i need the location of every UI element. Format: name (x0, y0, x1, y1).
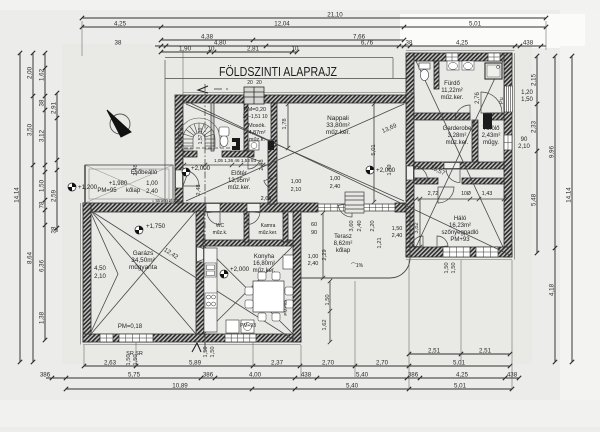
svg-text:2,10: 2,10 (291, 187, 302, 193)
label slope (351, 263, 364, 269)
svg-text:6,36: 6,36 (39, 259, 46, 272)
section line dash-dot (204, 84, 206, 352)
svg-text:10–1,51 10: 10–1,51 10 (242, 114, 267, 120)
svg-text:10: 10 (292, 46, 299, 53)
spiral staircase winder (178, 118, 220, 149)
label kolap (126, 188, 141, 194)
dimension row total 21,10 (80, 16, 548, 20)
black mark bath (483, 113, 492, 129)
svg-text:10Ø: 10Ø (461, 191, 471, 197)
window halo window2 (476, 247, 498, 257)
svg-text:33,80m²: 33,80m² (326, 122, 349, 129)
eaves line right wing (514, 53, 516, 260)
dimension row row2 (82, 364, 512, 368)
label 2,65 (261, 196, 272, 202)
svg-text:1,50: 1,50 (521, 97, 533, 103)
svg-text:5,75: 5,75 (128, 372, 141, 379)
door wing arc (414, 166, 428, 180)
stove 4 rings (205, 293, 217, 308)
svg-text:5,01: 5,01 (454, 383, 467, 390)
svg-text:Kamra: Kamra (261, 223, 276, 229)
svg-text:1,00: 1,00 (308, 254, 319, 260)
label chimney 20b (256, 80, 262, 86)
svg-text:2,48: 2,48 (133, 164, 139, 175)
wall terasz top right piece (395, 203, 414, 212)
dimension column right 14,14 (570, 54, 574, 364)
wall furdo bottom right part (486, 113, 504, 120)
svg-text:Előtér: Előtér (231, 171, 247, 177)
svg-text:PM=0,18: PM=0,18 (118, 324, 143, 330)
door band arc b (247, 212, 260, 225)
diagonal long 25,57 (184, 100, 510, 255)
svg-text:1,50: 1,50 (444, 262, 450, 273)
label Esobeallo (131, 170, 158, 176)
label pm93h (240, 323, 256, 329)
svg-text:1,38: 1,38 (39, 311, 46, 324)
svg-text:2,40: 2,40 (357, 220, 363, 231)
label d100 (308, 254, 319, 260)
label WC (213, 223, 228, 236)
interior dim line halo horizontal (414, 197, 506, 201)
svg-text:műz.ker.: műz.ker. (228, 185, 251, 191)
svg-text:1,49: 1,49 (387, 164, 393, 175)
window halo window (443, 247, 470, 257)
wall nappali top (183, 95, 414, 103)
label +1980 (109, 181, 128, 187)
svg-text:Mosók.: Mosók. (248, 123, 266, 129)
wall halo top right (462, 178, 504, 184)
wall garage-kitchen divider (196, 211, 204, 334)
svg-text:20: 20 (256, 80, 262, 86)
door garderobe arc (446, 169, 460, 183)
label d90 (311, 230, 317, 236)
interior dim line halo vertical (418, 197, 422, 249)
svg-text:4,25: 4,25 (456, 40, 469, 47)
door x (485, 112, 487, 114)
svg-text:1,43: 1,43 (482, 191, 493, 197)
wall garage+kitchen bottom (83, 334, 301, 342)
label dim 2,10 (518, 144, 530, 150)
svg-text:szőnyegpadló: szőnyegpadló (441, 230, 479, 236)
svg-text:PM+93: PM+93 (240, 323, 256, 329)
svg-text:1,62: 1,62 (322, 319, 328, 330)
label e 1,00 (291, 179, 302, 185)
label Konyha (253, 254, 276, 274)
washbasins (447, 61, 459, 70)
window bath window right (504, 88, 512, 109)
eaves line above nappali top wall (183, 92, 414, 94)
interior dim line eloter horizontal (182, 163, 272, 167)
svg-text:4,87m²: 4,87m² (248, 130, 265, 136)
door opening entrance in left wall (176, 170, 183, 188)
svg-text:4,25: 4,25 (114, 21, 127, 28)
dimension row row4 (64, 387, 514, 391)
diagonal nappali X b (186, 104, 404, 201)
svg-text:9,96: 9,96 (549, 145, 556, 158)
svg-text:5,01: 5,01 (453, 360, 466, 367)
svg-text:2,81: 2,81 (247, 46, 260, 53)
svg-text:38: 38 (406, 40, 413, 47)
label d60a (311, 222, 317, 228)
svg-text:11,22m²: 11,22m² (441, 88, 463, 94)
svg-text:8,64: 8,64 (27, 251, 34, 264)
dimension row 4,38/7,66 (159, 38, 406, 42)
svg-text:2,43m²: 2,43m² (482, 133, 501, 139)
porch esobeallo outline (85, 165, 173, 203)
diagonal garage X (91, 211, 196, 334)
svg-text:3,82: 3,82 (414, 222, 420, 233)
dim line terasz left (321, 211, 325, 280)
wall halo bottom (406, 247, 512, 257)
label chimney 20a (247, 80, 253, 86)
svg-text:12,04: 12,04 (274, 21, 290, 28)
door opening nappali to right wing (407, 166, 414, 180)
label Garderobe (443, 126, 472, 146)
svg-text:10,89: 10,89 (172, 383, 188, 390)
svg-text:5,89: 5,89 (189, 360, 202, 367)
label strang (152, 198, 181, 203)
door halo terasz door b (437, 236, 448, 247)
svg-text:20: 20 (247, 80, 253, 86)
label porch 1,00 (146, 181, 158, 187)
svg-text:+2,000: +2,000 (191, 165, 211, 172)
svg-text:PM=1,2: PM=1,2 (178, 127, 184, 145)
svg-text:PM+93: PM+93 (283, 300, 289, 316)
svg-text:műgyanta: műgyanta (129, 264, 158, 271)
window terasz glazed band (318, 204, 395, 211)
svg-text:műz.ker.: műz.ker. (326, 129, 350, 136)
dim line 1,78 nappali left (286, 102, 290, 150)
diagonal right wing X (416, 61, 503, 247)
svg-text:90: 90 (311, 230, 317, 236)
svg-text:4,25: 4,25 (456, 372, 469, 379)
svg-text:Fürdő: Fürdő (444, 81, 460, 87)
svg-text:2,51: 2,51 (428, 348, 441, 355)
door band arc a (207, 212, 220, 225)
label dim 1,50 (521, 97, 533, 103)
label porch 2,40 (146, 189, 158, 195)
svg-text:műz.ker.: műz.ker. (446, 140, 469, 146)
label halo 1,43 (482, 191, 493, 197)
svg-text:2,51: 2,51 (479, 348, 492, 355)
door halo door (438, 187, 454, 203)
svg-text:34,50m²: 34,50m² (131, 257, 154, 264)
svg-text:438: 438 (507, 372, 518, 379)
svg-text:16,80m²: 16,80m² (253, 261, 275, 267)
svg-text:2,48: 2,48 (259, 159, 265, 170)
svg-text:386: 386 (203, 372, 214, 379)
svg-text:60: 60 (311, 222, 317, 228)
label Nappali (326, 115, 350, 136)
svg-text:2,70: 2,70 (376, 360, 389, 367)
dimension column left3 (43, 51, 47, 342)
door nappali terasz (338, 203, 352, 217)
svg-text:14,14: 14,14 (566, 187, 573, 203)
wall halo top left (414, 178, 438, 184)
svg-text:2,33: 2,33 (531, 120, 538, 133)
level marker M5 (366, 166, 396, 174)
kitchen counter (204, 248, 217, 332)
svg-text:⌒1%: ⌒1% (351, 263, 364, 269)
level marker M2 (182, 165, 211, 176)
strang black square (268, 141, 274, 150)
svg-text:Garderobe: Garderobe (443, 126, 472, 132)
level marker M1 (68, 183, 98, 191)
label dim 90 (521, 137, 528, 143)
svg-text:1,50: 1,50 (392, 226, 403, 232)
stair to terasz (345, 192, 364, 213)
wall nappali left (175, 95, 183, 204)
svg-text:2,59: 2,59 (51, 189, 58, 202)
wc room fixtures (220, 136, 228, 147)
svg-text:kőlap: kőlap (126, 188, 141, 194)
svg-text:1,57 10: 1,57 10 (198, 127, 204, 144)
label Eloter (228, 171, 251, 191)
svg-text:2,76: 2,76 (475, 92, 481, 104)
svg-text:+1,200: +1,200 (78, 184, 98, 191)
svg-text:78: 78 (39, 201, 46, 208)
svg-text:műz.k.: műz.k. (213, 230, 228, 236)
dimension row row3 (46, 376, 521, 380)
label Mosoka (248, 123, 266, 143)
door opening garderobe bottom gap (444, 163, 460, 169)
svg-text:WC: WC (216, 223, 225, 229)
diagonal kitchen X (204, 246, 293, 334)
svg-text:1,20: 1,20 (521, 90, 533, 96)
svg-text:1,50: 1,50 (126, 354, 132, 365)
svg-text:2,15: 2,15 (531, 73, 538, 86)
wall inner wall piece a (183, 151, 197, 157)
window garage small window (100, 334, 113, 342)
svg-text:1,21: 1,21 (377, 237, 383, 248)
label dim t 2,40 (330, 184, 341, 190)
svg-text:3,50: 3,50 (27, 123, 34, 136)
svg-text:3,12: 3,12 (39, 129, 46, 142)
dining table (253, 281, 284, 312)
svg-text:+1,750: +1,750 (146, 223, 166, 230)
door opening south band gap a (206, 204, 220, 212)
svg-text:2,10: 2,10 (518, 144, 530, 150)
svg-text:+1,980: +1,980 (109, 181, 128, 187)
svg-text:2,63: 2,63 (104, 360, 117, 367)
toilet furdo (419, 63, 430, 69)
wall south band garage/kitchen top (83, 203, 318, 212)
svg-text:2,20: 2,20 (370, 220, 376, 231)
svg-text:1,50: 1,50 (451, 262, 457, 273)
black fridge (283, 255, 293, 269)
svg-text:műz.ker.: műz.ker. (253, 268, 276, 274)
label Garazs (129, 250, 158, 271)
svg-text:Konyha: Konyha (254, 254, 275, 260)
svg-text:2,65: 2,65 (261, 196, 272, 202)
svg-text:műz.ker.: műz.ker. (259, 230, 278, 236)
door entrance (183, 171, 199, 186)
dimension row 2,51/2,51 (407, 352, 512, 356)
svg-text:műz.ker.: műz.ker. (441, 95, 464, 101)
dimension column left4 (55, 91, 59, 232)
door halo terasz door a (412, 236, 423, 247)
svg-text:2,91: 2,91 (51, 101, 58, 114)
svg-text:1,50: 1,50 (203, 346, 209, 357)
wall right wing right (504, 53, 512, 257)
svg-text:1,00: 1,00 (330, 176, 341, 182)
label SR b (135, 351, 143, 357)
dimension row 4,25/438 (408, 44, 546, 48)
label eloter dims (214, 158, 257, 163)
svg-text:1,62: 1,62 (39, 68, 46, 81)
svg-text:1,00: 1,00 (291, 179, 302, 185)
label Torolo (482, 126, 501, 146)
svg-text:2,72: 2,72 (428, 191, 439, 197)
dimension row 1,90/10/2,81/10 (159, 50, 299, 54)
svg-text:2,37: 2,37 (271, 360, 284, 367)
svg-text:2,40: 2,40 (392, 233, 403, 239)
label x (0, 0, 1, 1)
black lintel mark right wall (505, 86, 513, 112)
svg-text:4,38: 4,38 (201, 34, 214, 41)
dimension row 4,25/12,04/5,01 (80, 25, 548, 29)
svg-text:Terasz: Terasz (334, 234, 352, 240)
svg-text:1,00: 1,00 (146, 181, 158, 187)
svg-text:2,40: 2,40 (146, 189, 158, 195)
svg-text:4,00: 4,00 (249, 372, 262, 379)
svg-text:FÖLDSZINTI ALAPRAJZ: FÖLDSZINTI ALAPRAJZ (219, 64, 337, 79)
svg-text:21,10: 21,10 (327, 12, 343, 19)
washing machine mosoka (249, 141, 259, 150)
door furdo door (455, 105, 470, 120)
svg-text:⌂ Strang Ø 100: ⌂ Strang Ø 100 (152, 198, 181, 203)
plinth line left of garage (80, 203, 82, 345)
svg-text:1,05 1,36 46 1,53 83: 1,05 1,36 46 1,53 83 (214, 158, 257, 163)
svg-text:2,40: 2,40 (308, 261, 319, 267)
svg-text:Garázs: Garázs (133, 250, 154, 257)
level marker M3 (135, 223, 166, 234)
chairs (258, 272, 266, 280)
label dim 1,51 (242, 114, 267, 120)
svg-text:5,01: 5,01 (371, 144, 377, 155)
dimension column 9,96/4,18 (553, 54, 557, 364)
label halo 2,72 (428, 191, 439, 197)
window kitchen window bottom (225, 334, 256, 342)
svg-text:1,78: 1,78 (282, 118, 288, 129)
svg-text:PM=0,20: PM=0,20 (244, 107, 266, 113)
svg-text:438: 438 (523, 40, 534, 47)
svg-text:8,62m²: 8,62m² (334, 241, 353, 247)
svg-text:386: 386 (40, 372, 51, 379)
interior dim line nappali vertical (372, 102, 376, 204)
label Furdo (441, 81, 464, 101)
section arrow top A (198, 86, 208, 93)
terasz outline rounded (301, 211, 410, 278)
window furdo top window2 (488, 53, 500, 61)
svg-text:PM+93: PM+93 (450, 237, 470, 243)
level marker M4 (220, 266, 250, 278)
wall furdo bottom left part (414, 113, 470, 120)
wall band divider 2 (283, 211, 288, 242)
door wc door (248, 157, 259, 169)
svg-text:5,40: 5,40 (346, 383, 359, 390)
wall center-right shared (406, 53, 414, 257)
svg-text:2,70: 2,70 (322, 360, 335, 367)
svg-text:műgy.: műgy. (483, 140, 499, 146)
door garage-kitchen arc (197, 247, 211, 262)
svg-text:műz.k.: műz.k. (249, 137, 266, 143)
wall eloter-nappali divider (268, 140, 277, 204)
door opening garage-kitchen door (197, 247, 204, 262)
svg-text:4,50: 4,50 (94, 266, 106, 272)
wall band divider 1 (244, 211, 249, 242)
label PM95 (97, 188, 117, 194)
wall wc-mosoka divider (244, 103, 248, 151)
label e 2,10 (291, 187, 302, 193)
label PM018 (118, 324, 143, 330)
plinth line below right wing (406, 259, 512, 261)
title box line (165, 78, 412, 80)
label dim t4 (392, 233, 403, 239)
furdo door arc (481, 92, 502, 113)
svg-text:2,48: 2,48 (196, 184, 202, 195)
label garage 2,10 (94, 274, 106, 280)
svg-text:1,50: 1,50 (325, 294, 331, 305)
chimney flue block (244, 87, 264, 104)
dimension column 14,14 (18, 51, 22, 364)
svg-text:1,50: 1,50 (39, 179, 46, 192)
north arrow (110, 114, 130, 134)
svg-text:38: 38 (39, 99, 46, 106)
thin wall stair-wc (211, 103, 214, 151)
dimension column 2,00/3,50/8,64 (31, 51, 35, 364)
scan tint over plan area (62, 44, 532, 364)
svg-text:13,95m²: 13,95m² (228, 178, 250, 184)
label dim t 1,00 (330, 176, 341, 182)
label Kamra (259, 223, 278, 236)
section arrow bottom A (192, 343, 201, 352)
label dim t3 (392, 226, 403, 232)
svg-text:2,10: 2,10 (94, 274, 106, 280)
wall kitchen right (293, 211, 301, 342)
stair walk dashed line (178, 147, 232, 149)
svg-text:38: 38 (51, 226, 58, 233)
svg-text:Háló: Háló (454, 216, 467, 222)
label d210 (308, 261, 319, 267)
dimension column 2,15/2,33/5,48 (535, 54, 539, 255)
window garage door (119, 334, 153, 342)
label SR a (126, 351, 134, 357)
svg-text:kőlap: kőlap (336, 248, 351, 254)
svg-text:10: 10 (208, 46, 215, 53)
wall garderobe-torolo divider (472, 120, 478, 165)
svg-text:1,90: 1,90 (179, 46, 192, 53)
svg-text:Törölő: Törölő (482, 126, 500, 132)
svg-text:90: 90 (521, 137, 528, 143)
svg-text:5,40: 5,40 (356, 372, 369, 379)
kitchen sink (205, 263, 216, 277)
window torolo window right (504, 135, 512, 150)
door eloter-nappali (264, 176, 277, 190)
svg-text:14,14: 14,14 (14, 187, 21, 203)
label PM020 (244, 107, 266, 113)
svg-text:2,40: 2,40 (330, 184, 341, 190)
svg-text:38: 38 (115, 40, 122, 47)
svg-text:4,80: 4,80 (214, 40, 227, 47)
svg-text:2,29: 2,29 (322, 249, 328, 260)
svg-text:3,28m²: 3,28m² (448, 133, 467, 139)
svg-text:3,60: 3,60 (349, 220, 355, 231)
diagonal garage-kitchen 12,42 (91, 211, 294, 340)
svg-text:PM=95: PM=95 (97, 188, 117, 194)
window furdo top window (446, 53, 458, 61)
label halo 10 (461, 191, 471, 197)
